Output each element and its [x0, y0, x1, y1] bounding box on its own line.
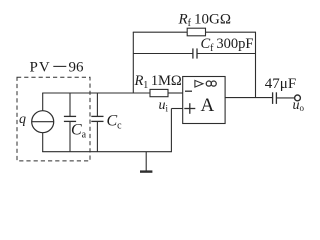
capacitor 47uF — [273, 92, 277, 104]
svg-text:96: 96 — [69, 59, 85, 75]
wire noninverting input vertical — [170, 109, 172, 153]
capacitor Cf — [193, 48, 197, 58]
wire feedback left vertical — [132, 32, 134, 93]
ground — [140, 152, 152, 172]
wire Rf top left segment — [133, 31, 187, 33]
capacitor Ca top wire — [69, 93, 71, 116]
capacitor Cc bottom wire — [96, 121, 98, 152]
op-amp minus input symbol — [185, 90, 192, 92]
wire feedback right vertical — [255, 32, 257, 97]
svg-text:q: q — [19, 112, 26, 127]
output terminal uo — [295, 95, 301, 101]
charge source q — [32, 111, 54, 133]
resistor R1 — [150, 89, 168, 96]
capacitor Cc — [91, 116, 103, 121]
svg-text:Rf 10GΩ: Rf 10GΩ — [178, 11, 232, 29]
svg-text:PV: PV — [30, 59, 51, 75]
wire Cf left segment — [133, 53, 193, 55]
wire bottom rail — [42, 151, 171, 153]
capacitor Ca bottom wire — [69, 121, 71, 152]
wire q source top stub — [42, 93, 44, 111]
op-amp gain triangle — [195, 80, 203, 87]
capacitor Ca — [64, 116, 76, 121]
wire noninverting input horizontal — [171, 108, 182, 110]
wire R1 to op-amp inverting input — [168, 92, 183, 94]
op-amp infinity symbol — [206, 81, 216, 86]
op-amp A box — [183, 77, 225, 124]
resistor Rf — [187, 28, 205, 36]
wire q source bottom stub — [42, 133, 44, 152]
op-amp plus input symbol — [184, 103, 195, 114]
wire main input rail — [42, 92, 150, 94]
svg-text:R1 1MΩ: R1 1MΩ — [134, 73, 182, 91]
sensor enclosure PV-96 dashed box — [17, 77, 90, 161]
wire Cf right segment — [197, 53, 256, 55]
label PV-96 dash — [53, 65, 66, 67]
svg-text:Cf 300pF: Cf 300pF — [201, 36, 254, 54]
svg-text:A: A — [201, 95, 215, 116]
wire op-amp output — [225, 97, 273, 99]
wire Rf top right segment — [206, 31, 257, 33]
capacitor Cc top wire — [96, 93, 98, 116]
wire capacitor to output terminal — [276, 97, 294, 99]
svg-text:47μF: 47μF — [265, 76, 296, 92]
